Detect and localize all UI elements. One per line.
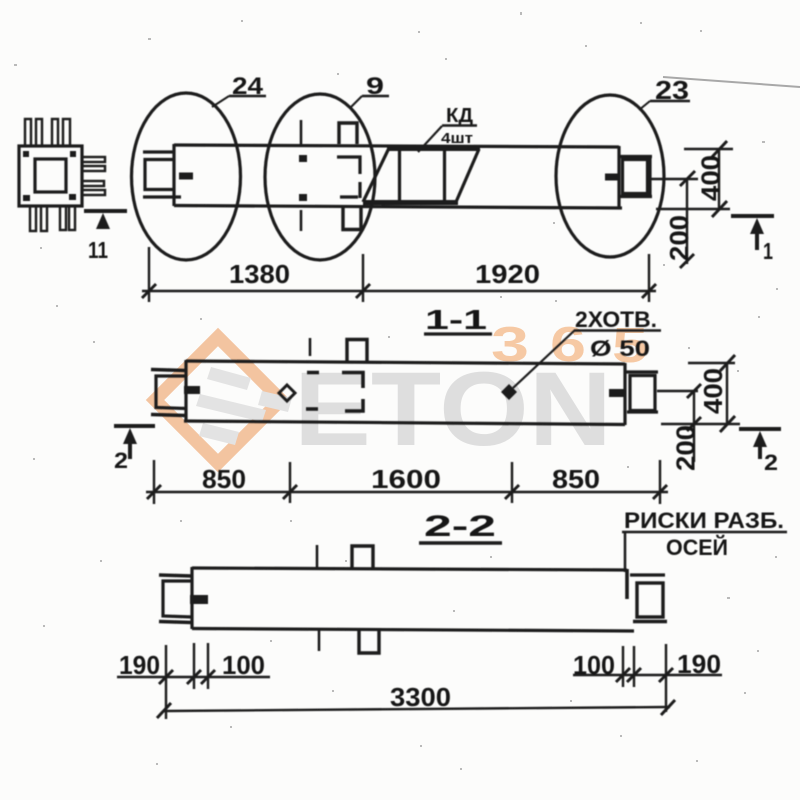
hole marker filled diamond (1-1) xyxy=(501,384,517,400)
section mark 2 right : arrowhead xyxy=(753,431,767,447)
2-2 left dim tick 1 (tall) xyxy=(165,645,167,719)
dim 200 mid extension (plan) xyxy=(651,178,698,180)
dim 200 mid extension (1-1) xyxy=(657,390,698,392)
section mark 1 right : line xyxy=(731,214,774,218)
left end anchor tab (plan) xyxy=(179,173,193,180)
stirrup line below beam (plan, ellipse 9) xyxy=(300,210,303,231)
beam right edge (1-1) xyxy=(623,363,626,425)
column cross-section inner square xyxy=(35,159,66,192)
left end lower line (plan) xyxy=(143,195,181,198)
bottom stub square (plan) xyxy=(343,207,361,230)
hole leader line (1-1) xyxy=(513,330,575,388)
svg-text:Ø 50: Ø 50 xyxy=(590,336,650,361)
title 2-2 underline xyxy=(419,541,502,544)
left end bracket top line (2-2) xyxy=(159,575,192,576)
1-1 dim extension 1 xyxy=(153,460,155,504)
right end bracket right vertical (plan) xyxy=(648,156,651,197)
section mark 1 left : line xyxy=(84,209,127,213)
right corner plate box (2-2) xyxy=(637,583,663,617)
section mark 1 right : arrowhead xyxy=(750,218,764,234)
dim 400 slash top (plan) xyxy=(712,141,727,157)
left end C-channel (1-1) xyxy=(156,376,186,409)
top stub square (1-1) xyxy=(347,340,367,362)
bottom thin stub (2-2) xyxy=(318,629,321,651)
dim 400 top extension (plan) xyxy=(684,148,733,150)
faint scan line top right xyxy=(663,77,800,87)
2-2 right dim slashes xyxy=(616,668,673,682)
right corner plate bottom line (2-2) xyxy=(633,620,667,623)
top stub square (plan) xyxy=(339,123,357,144)
beam left edge (2-2) xyxy=(190,567,193,629)
right end bracket top line (1-1) xyxy=(625,370,658,373)
right end bracket top line (plan) xyxy=(619,155,652,158)
svg-text:ОСЕЙ: ОСЕЙ xyxy=(666,535,728,560)
beam left edge (1-1) xyxy=(184,360,187,422)
section mark 2 right : line xyxy=(739,427,781,431)
1-1 dimension line 850/1600/850 xyxy=(146,491,668,493)
right end bracket bottom line (1-1) xyxy=(627,410,658,413)
dim 400 slash top (1-1) xyxy=(720,355,735,371)
dim 200 slash bottom (1-1) xyxy=(687,417,701,431)
3300 dimension line xyxy=(164,707,670,711)
embedded plate left slant xyxy=(363,148,389,202)
svg-text:КД: КД xyxy=(446,105,473,127)
section mark 2 left : arrowhead xyxy=(123,428,137,444)
label RISKI underline xyxy=(622,531,787,534)
bottom stub square (2-2) xyxy=(359,630,379,653)
dim 400 vertical (1-1) xyxy=(726,363,728,424)
plan dim slash middle xyxy=(356,284,370,298)
2-2 right dim tick 1 xyxy=(622,646,624,687)
column corner dot BL xyxy=(23,195,30,201)
section mark 2 left : line xyxy=(114,424,155,428)
section mark 2 left : shaft xyxy=(128,443,132,459)
left end bracket top line (1-1) xyxy=(151,370,186,371)
left end lower line (2-2) xyxy=(159,622,192,623)
column bottom rebar stubs xyxy=(30,206,75,231)
1-1 dim slash 4 xyxy=(653,485,667,499)
column cross-section outer square xyxy=(19,146,82,206)
right end anchor tab (1-1) xyxy=(609,389,626,397)
beam top edge (1-1) xyxy=(186,361,625,364)
section mark 1 left : arrowhead xyxy=(96,213,110,229)
title 1-1 underline xyxy=(424,332,492,335)
beam bottom edge (plan) xyxy=(174,206,622,209)
top thin stub (1-1) xyxy=(309,338,312,356)
left end lower line (1-1) xyxy=(151,415,186,416)
embedded plate inner vertical 2 xyxy=(443,151,446,202)
watermark chevron patch right xyxy=(258,391,292,412)
left end C-channel (2-2) xyxy=(163,581,192,617)
watermark diamond logo xyxy=(155,337,281,463)
dashed channel bottom-right corner (plan) xyxy=(340,182,360,198)
embedded plate inner vertical 1 xyxy=(398,151,401,202)
dim 200 vertical (1-1) xyxy=(693,391,695,462)
label 23 xyxy=(639,75,690,110)
svg-text:РИСКИ РАЗБ.: РИСКИ РАЗБ. xyxy=(624,508,784,533)
stirrup line above beam (plan, ellipse 9) xyxy=(300,120,303,144)
svg-text:1: 1 xyxy=(763,238,773,264)
svg-text:1600: 1600 xyxy=(371,464,441,494)
column corner dot TL xyxy=(23,151,29,157)
beam bottom edge (2-2) xyxy=(192,629,634,632)
dim 200 slash bottom (plan) xyxy=(680,254,694,268)
embedded plate parallelogram bottom band xyxy=(363,200,458,205)
dim 400 slash bottom (1-1) xyxy=(720,416,735,432)
svg-text:4шт: 4шт xyxy=(441,130,473,147)
svg-text:1920: 1920 xyxy=(475,259,540,289)
svg-text:2ХОТВ.: 2ХОТВ. xyxy=(575,307,657,332)
embedded plate right slant xyxy=(456,149,479,202)
dashed channel top-right corner (plan) xyxy=(337,157,360,174)
dim 400 bottom extension (plan) xyxy=(656,208,730,210)
right end anchor tab (plan) xyxy=(605,174,620,181)
dashed channel (1-1) : top-right corner xyxy=(342,373,363,389)
dashed channel (1-1) : bottom-right corner xyxy=(345,399,363,411)
dashed channel (1-1) : top-left dash xyxy=(307,371,319,375)
dim 200 slash top (plan) xyxy=(680,171,695,186)
embedded plate parallelogram top band xyxy=(387,146,480,151)
right corner plate vertical (2-2) xyxy=(625,569,629,599)
beam right edge (plan) xyxy=(617,146,620,207)
right end bracket bottom line (plan) xyxy=(620,195,652,198)
2-2 left dim tick 2 xyxy=(193,643,195,689)
plan dimension line 1380/1920 xyxy=(142,290,656,292)
left end bracket top line (plan) xyxy=(143,150,174,153)
svg-text:1-1: 1-1 xyxy=(425,304,487,335)
2-2 left dim slashes xyxy=(159,670,215,684)
svg-text:400: 400 xyxy=(696,155,726,201)
beam top edge (2-2) xyxy=(192,568,627,570)
svg-text:190: 190 xyxy=(119,650,160,680)
right end bracket box (plan) xyxy=(623,160,648,194)
1-1 dim slash 1 xyxy=(147,485,161,499)
2-2 right dim line 100/190 xyxy=(573,674,722,676)
right end bracket box (1-1) xyxy=(630,376,655,411)
svg-text:200: 200 xyxy=(664,215,694,261)
dashed channel (1-1) : bottom-left dash xyxy=(306,407,318,411)
ellipse detail 24 xyxy=(132,93,241,260)
svg-text:200: 200 xyxy=(671,425,701,471)
2-2 left dim line 190/100 xyxy=(117,676,270,678)
section mark 2 right : shaft xyxy=(758,446,762,459)
2-2 left dim tick 3 xyxy=(207,643,209,689)
plan dim extension right xyxy=(648,254,650,302)
top stub square (2-2) xyxy=(352,546,373,568)
watermark chevron stripe 2 xyxy=(196,394,266,422)
label RISKI leader xyxy=(624,532,627,572)
column top rebar stubs xyxy=(25,119,70,146)
svg-text:100: 100 xyxy=(222,650,265,680)
ellipse detail 23 xyxy=(556,95,664,257)
column right rebar stubs xyxy=(82,157,105,195)
3300 dim slash right xyxy=(661,700,675,715)
1-1 dim slash 2 xyxy=(283,485,297,499)
label 2xOTV underline xyxy=(574,329,661,332)
svg-text:2: 2 xyxy=(114,448,128,473)
2-2 right dim tick 3 (tall) xyxy=(665,644,667,712)
watermark group xyxy=(155,318,648,468)
plan dim slash right xyxy=(642,284,656,298)
svg-text:2-2: 2-2 xyxy=(424,510,496,543)
plan dim extension middle xyxy=(362,254,364,302)
beam left edge (plan) xyxy=(172,144,175,206)
top thin stub (2-2) xyxy=(316,545,319,568)
svg-text:400: 400 xyxy=(698,368,728,414)
rebar dot upper (plan) xyxy=(299,155,307,162)
dim 400 slash bottom (plan) xyxy=(712,201,727,217)
left end anchor tab (2-2) xyxy=(190,595,208,604)
svg-text:3300: 3300 xyxy=(390,682,451,712)
dim 400 vertical (plan) xyxy=(718,149,720,209)
1-1 dim extension 3 xyxy=(511,462,513,503)
svg-text:850: 850 xyxy=(202,464,246,494)
svg-text:850: 850 xyxy=(552,464,600,494)
3300 dim slash left xyxy=(157,703,171,718)
svg-text:100: 100 xyxy=(573,650,615,680)
1-1 dim extension 2 xyxy=(289,462,291,503)
beam bottom edge (1-1) xyxy=(184,421,625,425)
plan dim extension left xyxy=(148,247,150,302)
label 9 xyxy=(350,73,389,108)
watermark chevron stripe 1 xyxy=(207,367,251,390)
label KD xyxy=(418,105,477,152)
ellipse detail 9 xyxy=(265,94,375,260)
svg-text:11: 11 xyxy=(88,237,108,263)
watermark chevron stripe 3 xyxy=(199,423,239,445)
label 24 xyxy=(212,73,266,107)
right corner plate top line (2-2) xyxy=(630,573,665,576)
svg-text:1380: 1380 xyxy=(229,259,290,289)
1-1 dim slash 3 xyxy=(505,485,519,499)
hollow diamond node (1-1) xyxy=(279,385,295,401)
column corner dot BR xyxy=(69,194,76,200)
left end C-channel (plan) xyxy=(145,160,175,190)
section mark 1 right : shaft xyxy=(755,233,759,250)
dim 400 top extension (1-1) xyxy=(688,362,735,364)
rebar dot lower (plan) xyxy=(299,194,307,201)
svg-text:190: 190 xyxy=(677,649,721,679)
beam top edge (plan) xyxy=(174,145,619,147)
column corner dot TR xyxy=(70,151,76,157)
left end anchor tab (1-1) xyxy=(184,386,200,394)
dim 200 vertical (plan) xyxy=(686,179,688,264)
dim 200 slash top (1-1) xyxy=(687,384,701,398)
2-2 right dim tick 2 xyxy=(633,646,635,687)
svg-text:2: 2 xyxy=(764,450,778,475)
1-1 dim extension 4 xyxy=(659,460,661,504)
dim 400 bottom extension (1-1) xyxy=(661,423,740,425)
plan dim slash left xyxy=(142,284,156,298)
